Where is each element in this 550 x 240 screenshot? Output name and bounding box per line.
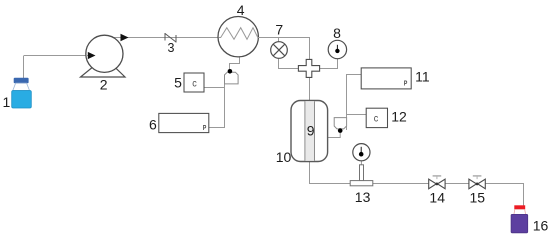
svg-text:2: 2 [100,77,108,93]
svg-text:13: 13 [355,189,371,205]
svg-text:8: 8 [333,25,341,41]
svg-text:3: 3 [168,41,175,55]
svg-text:c: c [374,112,379,124]
svg-text:c: c [192,78,197,90]
svg-text:4: 4 [237,2,245,18]
svg-text:P: P [203,123,207,132]
svg-text:16: 16 [533,218,549,234]
svg-text:6: 6 [149,117,157,133]
svg-text:1: 1 [3,94,11,110]
svg-text:5: 5 [174,75,182,91]
svg-text:P: P [404,79,408,88]
svg-text:11: 11 [415,68,430,84]
svg-text:15: 15 [470,189,486,205]
svg-text:10: 10 [276,149,292,165]
svg-text:7: 7 [275,21,283,37]
svg-text:9: 9 [307,122,315,138]
svg-text:14: 14 [429,189,445,205]
svg-text:12: 12 [391,109,407,125]
